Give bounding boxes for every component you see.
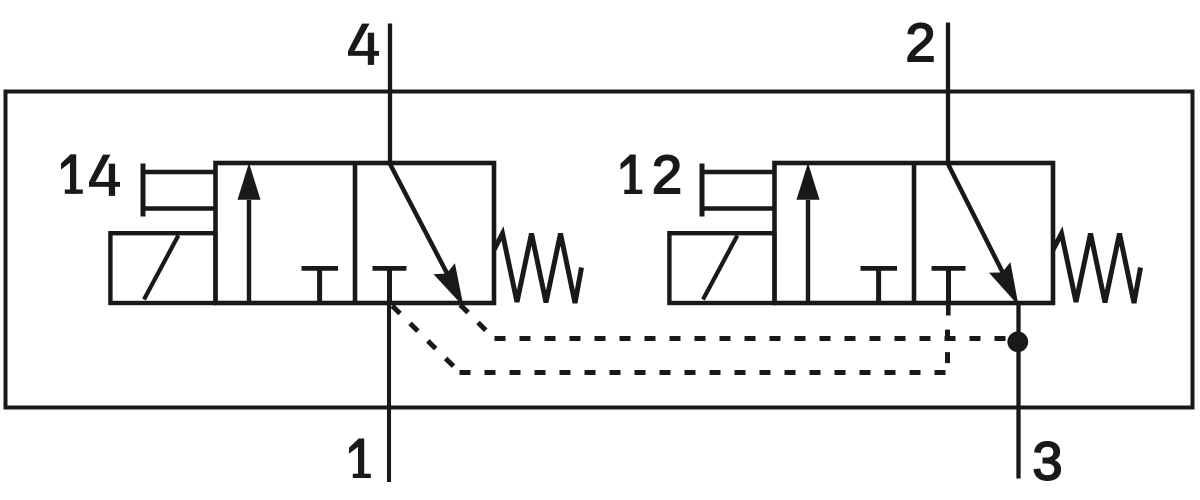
svg-text:3: 3 (1033, 431, 1063, 491)
svg-text:2: 2 (652, 145, 682, 205)
svg-text:2: 2 (906, 13, 936, 73)
